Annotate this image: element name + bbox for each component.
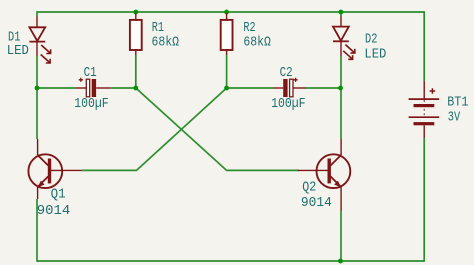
transistor Q1 <box>28 139 81 199</box>
LED D1 <box>29 17 50 64</box>
capacitor C2 <box>273 78 306 97</box>
svg-text:D2: D2 <box>365 31 377 47</box>
svg-text:9014: 9014 <box>37 203 71 219</box>
wire bottom rail <box>37 260 424 262</box>
node E junction Q2 emitter bottom rail <box>338 259 343 264</box>
wire C1 right to node B <box>111 87 136 89</box>
wire C2 right to node D <box>306 87 341 89</box>
wire Q2 emitter to bottom rail <box>340 211 342 261</box>
wire D1 to junction to Q1 collector <box>36 56 38 139</box>
svg-text:68kΩ: 68kΩ <box>243 35 271 51</box>
wire D2 to junction to Q2 collector <box>340 56 342 139</box>
svg-text:9014: 9014 <box>301 195 332 211</box>
svg-text:Q2: Q2 <box>302 180 316 196</box>
svg-text:3V: 3V <box>448 109 461 125</box>
wire node C to C2 left <box>227 87 273 89</box>
LED D2 <box>333 17 355 60</box>
svg-text:100µF: 100µF <box>271 96 305 112</box>
node C junction C2-R2 <box>224 86 229 91</box>
wire D1 top stub <box>36 11 38 16</box>
svg-text:LED: LED <box>7 43 29 59</box>
battery BT1 <box>409 81 440 138</box>
node R1 top junction <box>133 10 138 15</box>
wire D2 top stub <box>340 11 342 16</box>
svg-text:68kΩ: 68kΩ <box>152 35 180 51</box>
node A junction C1-D1 <box>35 86 40 91</box>
node R2 top junction <box>224 10 229 15</box>
transistor Q2 <box>298 139 351 211</box>
wire diagonal node B to Q2 base run <box>136 88 299 170</box>
svg-text:LED: LED <box>364 47 386 63</box>
wire R1 bottom to node <box>135 55 137 89</box>
node D junction C2-D2 <box>338 86 343 91</box>
wire battery bottom <box>423 138 425 262</box>
wire battery top <box>423 11 425 81</box>
svg-text:Q1: Q1 <box>51 186 66 202</box>
wire top rail <box>37 11 424 13</box>
svg-text:100µF: 100µF <box>74 96 108 112</box>
svg-text:C2: C2 <box>280 65 293 81</box>
node D2 top junction <box>339 10 344 15</box>
wire diagonal node C to Q1 base run <box>81 88 227 170</box>
node B junction C1-R1 <box>133 86 138 91</box>
wire node A to C1 left <box>37 87 76 89</box>
svg-text:C1: C1 <box>84 65 97 81</box>
resistor R1 <box>130 13 142 55</box>
wire R2 bottom to node <box>226 55 228 89</box>
svg-text:BT1: BT1 <box>447 94 468 110</box>
capacitor C1 <box>76 78 111 97</box>
wire Q1 emitter to bottom rail <box>36 199 38 262</box>
resistor R2 <box>221 13 233 55</box>
